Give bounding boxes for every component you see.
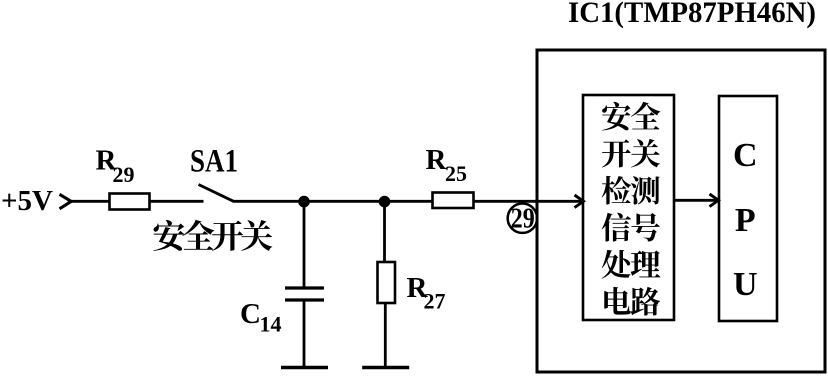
supply input chevron	[60, 194, 72, 209]
wire node B to R25	[385, 200, 433, 203]
block: safety switch detection signal processing circuit	[583, 95, 674, 320]
svg-text:IC1(TMP87PH46N): IC1(TMP87PH46N)	[568, 0, 816, 29]
label SA1	[190, 144, 238, 180]
svg-text:29: 29	[113, 162, 135, 187]
wire R25 to IC1 (pin 29) with arrowhead	[474, 195, 584, 208]
svg-text:P: P	[735, 202, 756, 239]
label R29	[96, 145, 135, 188]
block: CPU	[719, 96, 777, 321]
IC IC1 outline box	[537, 50, 825, 372]
pin number 29 (circled)	[508, 204, 537, 235]
svg-text:SA1: SA1	[190, 144, 238, 180]
svg-text:C: C	[733, 137, 758, 174]
resistor R27	[378, 201, 396, 367]
svg-text:27: 27	[424, 289, 446, 314]
svg-text:14: 14	[260, 312, 282, 337]
arrow: processing block to CPU	[674, 194, 719, 207]
resistor R29	[110, 194, 150, 210]
capacitor C14	[285, 201, 324, 367]
svg-text:29: 29	[511, 204, 535, 235]
switch SA1 (blade)	[199, 185, 234, 202]
svg-text:C: C	[240, 298, 261, 330]
wire R29 to switch SA1	[150, 200, 204, 203]
svg-text:U: U	[733, 266, 758, 303]
svg-text:25: 25	[445, 161, 467, 186]
label R25	[426, 144, 468, 186]
wire SA1 to node A	[233, 200, 304, 203]
label IC1(TMP87PH46N)	[568, 0, 816, 29]
ground (below R27)	[362, 366, 409, 369]
label C14	[240, 298, 282, 337]
svg-text:+5V: +5V	[1, 185, 53, 217]
wire supply to R29	[71, 200, 111, 203]
node B (junction dot)	[379, 196, 391, 208]
ground (below C14)	[281, 366, 328, 369]
resistor R25	[433, 193, 474, 209]
label R27	[407, 272, 446, 314]
wire node A to node B	[304, 200, 385, 203]
label: 安全开关 (safety switch)	[153, 220, 272, 251]
+5V supply label	[1, 185, 53, 217]
node A (junction dot)	[298, 196, 310, 208]
